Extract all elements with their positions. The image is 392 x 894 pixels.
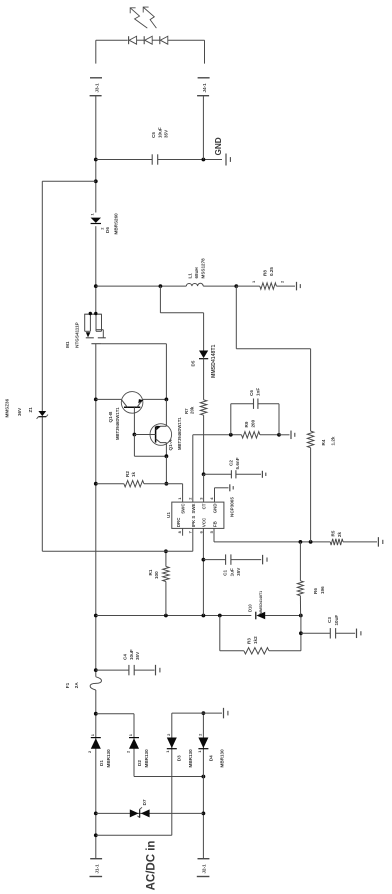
node L1-tap (94, 284, 98, 288)
svg-text:MMSD4148T1: MMSD4148T1 (211, 344, 217, 378)
connector J4-1 (198, 77, 210, 79)
diode D6 (91, 218, 101, 223)
node C2-tap (202, 472, 206, 476)
wire LED-bottom (168, 39, 205, 41)
svg-text:2: 2 (166, 733, 171, 736)
node Q1-base-node (133, 433, 137, 437)
node R2-tap (94, 482, 98, 486)
node C4-tap (94, 668, 98, 672)
diode D4 (198, 738, 208, 749)
wire bridge-gnd (172, 712, 222, 714)
svg-text:J3-1: J3-1 (94, 83, 99, 93)
svg-text:Q1-B: Q1-B (108, 411, 113, 423)
svg-text:R4: R4 (321, 439, 326, 445)
wire D5-tap-left (159, 286, 161, 313)
wire C2-bot (236, 473, 261, 475)
svg-text:GND: GND (214, 137, 223, 155)
svg-text:1: 1 (90, 733, 95, 736)
svg-text:100: 100 (154, 571, 159, 579)
wire pin1 (182, 484, 184, 502)
wire base-loop-top (133, 435, 135, 457)
wire R4-to-L1 (235, 286, 237, 349)
ground bridge (223, 708, 225, 719)
node C6-left-top (229, 433, 233, 437)
ground C3 (356, 629, 358, 639)
diode D3 (167, 738, 177, 749)
svg-text:M1: M1 (65, 341, 70, 348)
svg-text:D2: D2 (137, 760, 142, 766)
node R4-FB (309, 540, 313, 544)
wire R5-bot (343, 541, 377, 543)
wire pin5 (213, 528, 215, 542)
diode D1 (91, 738, 101, 749)
svg-text:1: 1 (165, 750, 170, 753)
node D2-D4 (202, 775, 206, 779)
svg-text:2k: 2k (337, 531, 342, 537)
ground pin4 (229, 484, 231, 491)
wire R4-left (310, 448, 312, 542)
svg-text:D1: D1 (99, 760, 104, 766)
wire C6-bot (278, 404, 280, 435)
wire Z1-left (41, 417, 43, 552)
svg-text:MBR130: MBR130 (220, 749, 225, 768)
wire D5-anode (203, 313, 205, 351)
node J4-tap (202, 158, 206, 162)
diode D10 (256, 612, 265, 620)
wire D2-drop (96, 713, 134, 715)
wire R9-top (193, 434, 242, 436)
wire C5-top (96, 159, 152, 161)
svg-text:C6: C6 (249, 390, 254, 396)
wire R9-gnd (279, 434, 290, 436)
node D5-tap (159, 284, 163, 288)
ground R5 (377, 537, 379, 547)
capacitor C3 (329, 628, 331, 638)
svg-text:C3: C3 (327, 617, 332, 623)
svg-text:VCC: VCC (202, 517, 207, 527)
wire R1-right (165, 551, 167, 566)
svg-text:R6: R6 (313, 588, 318, 594)
wire R6-right (299, 542, 301, 581)
svg-text:NTGS4111P: NTGS4111P (75, 322, 80, 348)
wire rail D6-to-J3 (95, 96, 97, 213)
svg-text:SWC: SWC (181, 503, 186, 514)
ground C2 (261, 471, 263, 478)
svg-text:1: 1 (251, 280, 256, 283)
node R6-FB (299, 540, 303, 544)
light arrows (131, 8, 148, 28)
capacitor C2 (230, 470, 232, 478)
svg-text:2: 2 (125, 750, 130, 753)
wire pin3 (203, 474, 205, 502)
wire C2-top (204, 473, 232, 475)
wire C5-bot (158, 159, 222, 161)
wire D4-line (202, 713, 204, 858)
node C5-tap (94, 158, 98, 162)
wire gate-to-Q1 (165, 344, 167, 400)
svg-text:C2: C2 (229, 460, 234, 466)
wire FB-vertical (214, 541, 330, 543)
wire D5-drop (160, 312, 203, 314)
wire R7-pin3 (203, 415, 205, 474)
svg-text:R8: R8 (263, 270, 268, 276)
node bus-bottom (299, 614, 303, 618)
svg-text:1.2k: 1.2k (331, 436, 336, 445)
fuse F1 (90, 677, 101, 690)
svg-text:D10: D10 (248, 604, 253, 612)
wire rail to-J1 (95, 714, 97, 858)
svg-text:0.25: 0.25 (269, 267, 274, 276)
svg-text:MBT3946DW1T1: MBT3946DW1T1 (115, 407, 120, 440)
svg-text:1k2: 1k2 (253, 636, 258, 644)
resistor R8 (260, 283, 277, 289)
svg-text:35V: 35V (164, 129, 169, 138)
svg-text:200: 200 (251, 419, 256, 427)
wire C3-top (301, 632, 330, 634)
wire base-loop-left (134, 455, 166, 457)
wire pin4-gnd-drop (215, 487, 229, 489)
wire pin4 (214, 488, 216, 502)
node C1-tap (202, 558, 206, 562)
node Q1-emitter-gate (165, 398, 169, 402)
transistor Q1-B (121, 392, 143, 414)
svg-text:U1: U1 (166, 512, 171, 518)
wire Q1B-emitter (143, 398, 166, 400)
capacitor C4 (128, 665, 130, 675)
connector J1-1 (90, 858, 102, 860)
svg-text:2A: 2A (74, 682, 79, 689)
wire Q1A-left-leg (165, 443, 167, 457)
wire (137, 39, 144, 41)
svg-text:R2: R2 (125, 471, 130, 477)
LED D-led2 (145, 36, 153, 44)
wire R2-top (96, 483, 124, 485)
wire (152, 39, 159, 41)
svg-text:68uH: 68uH (194, 267, 199, 279)
wire Q1A-right-leg (165, 399, 167, 426)
svg-text:MBT3946DW1T1: MBT3946DW1T1 (177, 417, 182, 450)
svg-text:CT: CT (202, 503, 207, 509)
svg-text:C4: C4 (123, 654, 128, 660)
wire R3-top (219, 616, 221, 651)
wire Q1B-base (133, 407, 135, 434)
wire D3-line (171, 713, 173, 835)
svg-text:AC/DC in: AC/DC in (145, 841, 157, 891)
svg-text:MMSZ36: MMSZ36 (5, 398, 10, 417)
svg-text:5: 5 (209, 530, 214, 533)
svg-text:D5: D5 (190, 360, 195, 366)
wire D5-R7 (203, 359, 205, 400)
svg-text:J1-1: J1-1 (94, 864, 99, 874)
svg-text:Z1: Z1 (28, 407, 33, 413)
wire R3-riser (220, 650, 244, 652)
wire R8-bot (276, 285, 295, 287)
wire D2-line (133, 714, 135, 777)
svg-text:20k: 20k (190, 406, 195, 414)
resistor R9 (242, 432, 260, 438)
resistor R3 (244, 648, 269, 654)
svg-text:NCP3065: NCP3065 (230, 497, 235, 517)
wire R8-top (236, 285, 259, 287)
wire J3-upper (95, 40, 97, 63)
svg-text:35V: 35V (135, 651, 140, 660)
svg-text:F1: F1 (65, 682, 70, 688)
svg-text:35V: 35V (236, 567, 241, 576)
node R2-bottom (165, 482, 169, 486)
svg-text:2: 2 (188, 497, 193, 500)
wire D2-to-D4 (134, 776, 203, 778)
wire R9-bot (260, 434, 279, 436)
node C3-tap (299, 631, 303, 635)
wire C6-drop1 (231, 403, 254, 405)
svg-text:D3: D3 (177, 755, 182, 761)
svg-text:5.6nF: 5.6nF (235, 457, 240, 469)
svg-text:C1: C1 (223, 569, 228, 575)
wire L1-bot (203, 285, 236, 287)
wire C1-top (203, 559, 225, 561)
wire LED-top (96, 39, 128, 41)
wire Q1A-base (134, 434, 155, 436)
node D7-top (94, 812, 98, 816)
wire C3-bot (336, 632, 356, 634)
wire Z1-right (41, 181, 43, 411)
svg-text:D6: D6 (105, 227, 110, 233)
node bridge-top (94, 712, 98, 716)
wire R2-bot (144, 483, 167, 485)
svg-text:Q1-A: Q1-A (168, 439, 173, 451)
svg-text:10uF: 10uF (157, 127, 162, 138)
svg-text:R3: R3 (247, 638, 252, 644)
node VCC-bus-tap (94, 614, 98, 618)
ground R8 (296, 282, 298, 291)
svg-text:MBRS260: MBRS260 (114, 213, 119, 235)
svg-text:1: 1 (90, 213, 95, 216)
ground R9 (290, 431, 292, 440)
wire D3-return (96, 834, 172, 836)
transistor M1 (84, 313, 102, 315)
svg-text:2: 2 (87, 750, 92, 753)
wire Ipk-vertical (42, 550, 193, 552)
diode D5 (199, 351, 208, 359)
LED D-led3 (160, 36, 168, 44)
svg-text:J4-1: J4-1 (202, 83, 207, 93)
wire C6-drop2 (258, 403, 279, 405)
wire D7-line (96, 812, 204, 814)
svg-text:MBR130: MBR130 (144, 749, 149, 768)
svg-text:MMSD4148T1: MMSD4148T1 (259, 591, 263, 614)
svg-text:GND: GND (212, 504, 217, 514)
svg-text:IPK S: IPK S (191, 516, 196, 528)
svg-text:36V: 36V (17, 407, 22, 416)
wire R1-left (165, 582, 167, 616)
svg-text:R1: R1 (148, 569, 153, 575)
connector J3-1 (90, 77, 102, 79)
svg-text:1nF: 1nF (256, 388, 261, 396)
svg-text:SWE: SWE (191, 503, 196, 513)
svg-text:MBR130: MBR130 (188, 749, 193, 768)
connector J2-1 (198, 858, 210, 860)
wire pin8 stub (182, 528, 184, 535)
svg-text:1k: 1k (131, 471, 136, 477)
svg-text:1: 1 (177, 497, 182, 500)
node Q1A-left-node (165, 454, 169, 458)
node VCC-pin6 (202, 614, 206, 618)
diode D2 (129, 738, 139, 749)
ground C5 (225, 154, 227, 166)
svg-text:6: 6 (198, 530, 203, 533)
diode D7 TVS (130, 809, 139, 817)
transistor Q1-A (150, 424, 172, 446)
wire R6-left (299, 596, 301, 616)
resistor R6 (297, 581, 303, 596)
wire C1-bot (231, 559, 261, 561)
ground C1 (262, 555, 264, 565)
svg-text:R5: R5 (330, 530, 335, 536)
wire C4-bot (134, 669, 154, 671)
ground C4 (155, 665, 157, 676)
node D7-bottom (202, 812, 206, 816)
svg-text:8: 8 (177, 530, 182, 533)
node Z1-tap (94, 179, 98, 183)
svg-text:4: 4 (209, 497, 214, 500)
wire Z1-drop (42, 180, 96, 182)
svg-text:2: 2 (99, 227, 104, 230)
zener Z1 (38, 411, 46, 416)
svg-text:R7: R7 (184, 408, 189, 414)
svg-text:J2-1: J2-1 (202, 864, 207, 874)
resistor R4 (307, 431, 313, 448)
svg-text:7: 7 (188, 530, 193, 533)
svg-text:MBR130: MBR130 (106, 749, 111, 768)
inductor L1 (186, 283, 203, 286)
wire pin7 (192, 528, 194, 551)
wire R4-right (310, 349, 312, 431)
svg-text:10uF: 10uF (334, 615, 339, 626)
resistor R5 (330, 539, 343, 545)
wire R3-bot (269, 650, 301, 652)
wire R4-riser (236, 348, 310, 350)
svg-text:196: 196 (320, 586, 325, 594)
svg-text:2: 2 (198, 733, 203, 736)
svg-text:1uF: 1uF (229, 568, 234, 576)
capacitor C5 (151, 154, 153, 164)
svg-text:R9: R9 (244, 421, 249, 427)
svg-text:2: 2 (280, 280, 285, 283)
svg-text:DRC: DRC (176, 517, 181, 527)
svg-text:L1: L1 (188, 273, 193, 279)
wire J4-to-C5 (202, 96, 204, 160)
svg-text:1: 1 (197, 750, 202, 753)
node C6-left-bot (277, 433, 281, 437)
IC U1 box (172, 502, 224, 528)
node R3-bus (218, 614, 222, 618)
capacitor C6 (253, 399, 255, 409)
wire bus-upper (96, 615, 252, 617)
wire C6-top (230, 404, 232, 435)
wire bus-lower (265, 615, 301, 617)
wire M1-gate-down (102, 343, 167, 345)
node D3-return (94, 833, 98, 837)
LED D-led1 (129, 36, 137, 44)
capacitor C1 (225, 554, 227, 564)
svg-text:MSS1278: MSS1278 (200, 258, 205, 279)
node D4-gnd-wire (202, 711, 206, 715)
wire pin6 VCC (202, 528, 204, 615)
wire pin2 (192, 435, 194, 502)
wire to-R2-node (165, 456, 167, 484)
wire pin1-riser (166, 483, 182, 485)
svg-text:1: 1 (128, 733, 133, 736)
svg-text:D7: D7 (142, 799, 147, 805)
node R1-Ipk (164, 549, 168, 553)
svg-text:FB: FB (212, 521, 217, 527)
resistor R2 (124, 481, 144, 487)
wire J4-upper (204, 40, 206, 63)
wire rail M1-to-D6 (95, 226, 97, 313)
resistor R1 (163, 567, 169, 582)
wire rail bridge-to-fuse (95, 690, 97, 714)
resistor R7 (200, 400, 206, 415)
node R4-R8 (234, 284, 238, 288)
wire L1-top (96, 285, 187, 287)
wire R3-return (300, 616, 302, 651)
svg-text:C5: C5 (151, 132, 156, 138)
node R1-bus (164, 614, 168, 618)
svg-text:10uF: 10uF (129, 649, 134, 660)
node Q1B-tap (94, 398, 98, 402)
svg-text:D4: D4 (209, 755, 214, 761)
wire C4-top (96, 669, 129, 671)
svg-text:3: 3 (198, 497, 203, 500)
wire Q1B-collector (96, 398, 122, 400)
wire rail fuse-to-M1 (95, 344, 97, 677)
